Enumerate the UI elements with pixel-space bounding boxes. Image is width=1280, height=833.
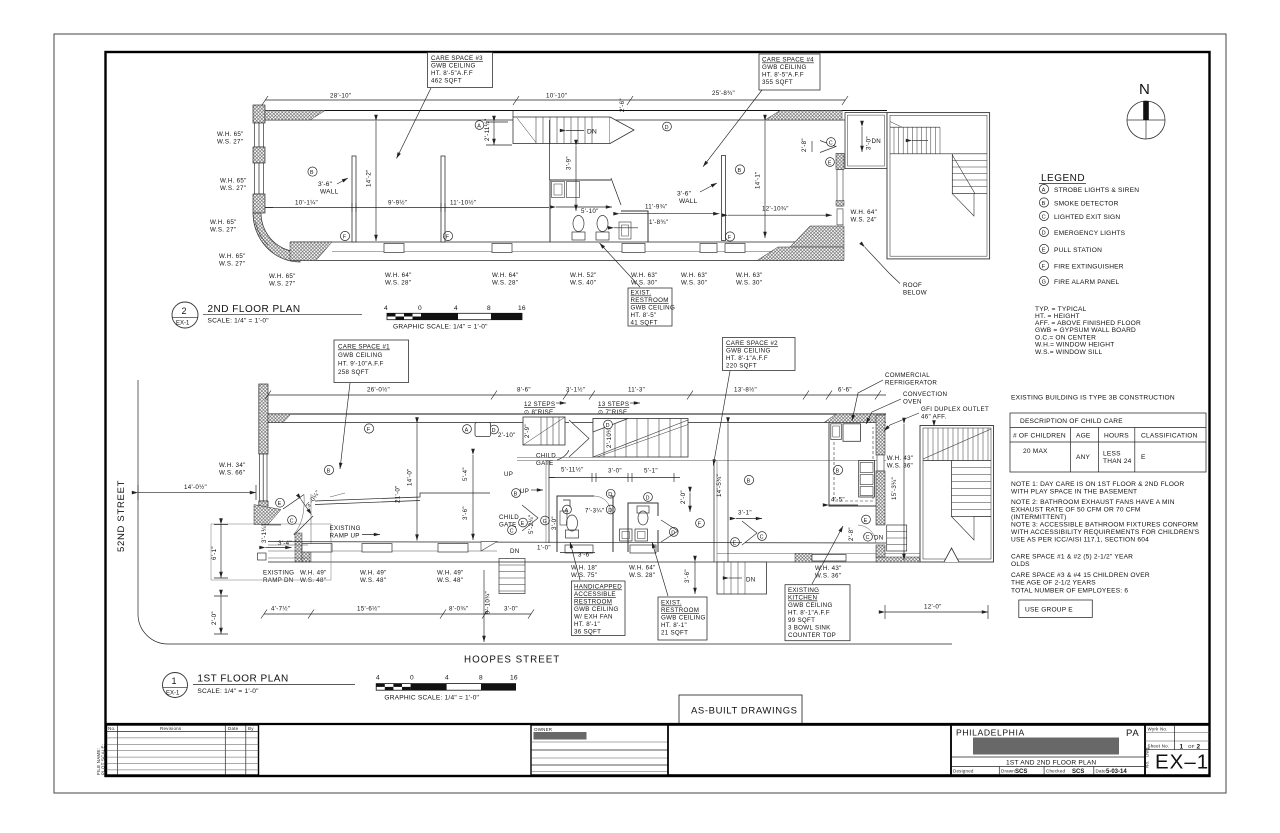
2F exist restroom label box <box>600 243 676 327</box>
svg-text:G: G <box>1042 280 1047 286</box>
svg-text:W.S. 28": W.S. 28" <box>385 280 411 287</box>
svg-text:C: C <box>829 140 833 146</box>
kitchen vertical dims <box>891 424 934 560</box>
svg-text:Dwg.: Dwg. <box>1145 746 1150 757</box>
svg-text:W.S. 27": W.S. 27" <box>210 227 236 234</box>
svg-text:2'-8": 2'-8" <box>848 527 855 541</box>
svg-text:NOTE 3: ACCESSIBLE BATHROOM FI: NOTE 3: ACCESSIBLE BATHROOM FIXTURES CON… <box>1011 522 1198 529</box>
dim 9'-10 vertical <box>484 570 492 642</box>
svg-text:THAN 24: THAN 24 <box>1103 458 1132 465</box>
owner box <box>531 725 668 775</box>
svg-text:SCS: SCS <box>1072 769 1084 775</box>
svg-text:No.: No. <box>108 726 116 731</box>
svg-text:462 SQFT: 462 SQFT <box>431 78 462 85</box>
svg-text:⊙ 7"RISE: ⊙ 7"RISE <box>598 409 627 416</box>
2F partition wall 2 <box>441 156 445 242</box>
svg-text:1'-0": 1'-0" <box>537 545 551 552</box>
dim 12'-0 <box>885 604 988 620</box>
svg-text:3'-1": 3'-1" <box>738 510 752 517</box>
2F stair width dim 2'-11 <box>484 118 512 145</box>
svg-text:7'-3¼": 7'-3¼" <box>585 508 604 515</box>
svg-text:THE AGE OF 2-1/2 YEARS: THE AGE OF 2-1/2 YEARS <box>1011 580 1096 587</box>
svg-text:CHILD: CHILD <box>536 453 556 460</box>
symbol A <box>475 121 484 130</box>
svg-text:11'-3": 11'-3" <box>628 387 645 394</box>
svg-text:AGE: AGE <box>1076 433 1091 440</box>
svg-text:8'-0¾": 8'-0¾" <box>449 606 468 613</box>
care space 1 label box <box>334 340 409 469</box>
svg-text:W.S. 27": W.S. 27" <box>220 185 246 192</box>
svg-text:AS-BUILT DRAWINGS: AS-BUILT DRAWINGS <box>691 706 798 717</box>
1F corridor walls <box>517 458 886 563</box>
svg-text:21'-0": 21'-0" <box>395 485 402 503</box>
child gate 1 <box>536 420 589 467</box>
svg-text:LESS: LESS <box>1103 451 1121 458</box>
care space 2 label box <box>713 338 795 466</box>
abbreviations <box>1035 306 1141 356</box>
svg-text:W.S. 48": W.S. 48" <box>360 577 386 584</box>
revisions table <box>107 725 259 775</box>
svg-text:LEGEND: LEGEND <box>1041 173 1085 184</box>
svg-text:Sheet No.: Sheet No. <box>1148 744 1170 749</box>
svg-text:EX-1: EX-1 <box>176 321 190 327</box>
svg-text:3'-0": 3'-0" <box>551 516 558 530</box>
svg-text:D: D <box>608 492 612 498</box>
svg-text:Designed: Designed <box>953 769 974 774</box>
svg-text:DN: DN <box>510 548 520 555</box>
svg-text:By: By <box>248 726 254 731</box>
svg-text:26'-0½": 26'-0½" <box>367 387 390 394</box>
svg-text:ACCESSIBLE: ACCESSIBLE <box>574 591 616 598</box>
svg-text:258 SQFT: 258 SQFT <box>338 369 369 376</box>
svg-text:3'-9": 3'-9" <box>566 156 573 170</box>
2F symbol F circles <box>340 231 734 241</box>
1F stair B <box>573 419 688 458</box>
svg-text:W.S. 40": W.S. 40" <box>570 280 596 287</box>
svg-text:DN: DN <box>746 577 756 584</box>
dim 3'-9 stair to restroom <box>566 146 577 211</box>
svg-text:SCALE: 1/4" = 1'-0": SCALE: 1/4" = 1'-0" <box>197 688 259 695</box>
svg-text:15'-6½": 15'-6½" <box>357 606 380 613</box>
svg-text:6'-1": 6'-1" <box>211 546 218 560</box>
svg-text:2: 2 <box>1197 743 1201 750</box>
svg-text:99 SQFT: 99 SQFT <box>788 617 815 624</box>
1F top dim row <box>265 387 886 400</box>
svg-text:OWNER: OWNER <box>534 727 553 732</box>
svg-text:3'-6": 3'-6" <box>684 569 691 583</box>
svg-text:W.H. 64": W.H. 64" <box>385 272 412 279</box>
sheet number block <box>1145 725 1210 775</box>
2F curved corner wall <box>253 213 300 262</box>
1F bottom windows <box>302 544 846 562</box>
svg-text:W.H.= WINDOW HEIGHT: W.H.= WINDOW HEIGHT <box>1035 342 1114 349</box>
2F vertical dim 14'-1 <box>755 121 766 238</box>
svg-text:EXIST.: EXIST. <box>631 290 652 297</box>
2F left wall hatch low <box>253 194 265 213</box>
2F partition wall 1 <box>352 156 356 242</box>
svg-text:W.H. 49": W.H. 49" <box>360 570 387 577</box>
2F left wall window 1 <box>255 123 264 147</box>
svg-text:UP: UP <box>520 488 529 495</box>
svg-text:WALL: WALL <box>679 198 698 205</box>
legend title <box>1039 173 1086 184</box>
mid right DN stair <box>684 562 767 594</box>
svg-text:PHILADELPHIA: PHILADELPHIA <box>956 728 1025 738</box>
svg-text:GWB CEILING: GWB CEILING <box>631 305 676 312</box>
2nd floor plan title bubble <box>172 302 362 328</box>
svg-text:B: B <box>327 468 331 474</box>
svg-text:(INTERMITTENT): (INTERMITTENT) <box>1011 514 1067 521</box>
52nd street line <box>138 380 168 644</box>
svg-text:RESTROOM: RESTROOM <box>574 599 612 606</box>
restroom dim row <box>549 467 680 483</box>
svg-text:CARE SPACE #1 & #2 (5) 2-1/2": CARE SPACE #1 & #2 (5) 2-1/2" YEAR <box>1011 554 1133 561</box>
svg-text:5'-10": 5'-10" <box>581 208 599 215</box>
svg-text:11'-10½": 11'-10½" <box>450 200 476 207</box>
roof below label <box>865 247 927 296</box>
child care table <box>1010 413 1206 472</box>
svg-text:W.S. 30": W.S. 30" <box>736 280 762 287</box>
svg-text:GWB CEILING: GWB CEILING <box>726 348 771 355</box>
svg-text:GATE: GATE <box>499 522 517 529</box>
svg-text:Checked: Checked <box>1046 769 1065 774</box>
svg-text:C: C <box>290 518 294 524</box>
svg-text:O.C.= ON CENTER: O.C.= ON CENTER <box>1035 335 1096 342</box>
svg-text:5-03-14: 5-03-14 <box>1106 769 1127 775</box>
svg-text:2'-10": 2'-10" <box>498 432 516 439</box>
notes <box>1011 481 1200 595</box>
svg-text:Revisions: Revisions <box>160 726 182 731</box>
2F roof below block <box>887 113 990 259</box>
legend items <box>1039 184 1139 286</box>
1F symbols top <box>324 423 490 475</box>
svg-text:D: D <box>606 423 610 429</box>
1F graphic scale bar <box>376 675 518 702</box>
svg-text:14'-5¾": 14'-5¾" <box>716 474 723 497</box>
1F stair A <box>498 417 565 445</box>
svg-text:USE GROUP E: USE GROUP E <box>1025 607 1073 614</box>
svg-text:1ST AND 2ND FLOOR PLAN: 1ST AND 2ND FLOOR PLAN <box>1006 760 1096 767</box>
2F toilet 2 <box>596 216 609 241</box>
care space 3 label box <box>397 53 493 159</box>
restroom sinks <box>620 529 648 541</box>
svg-text:No.: No. <box>1145 760 1150 768</box>
as-built drawings box <box>679 695 802 724</box>
door D right of restroom2 <box>661 490 690 542</box>
svg-text:W.H. 63": W.H. 63" <box>631 272 658 279</box>
svg-text:W.S. 27": W.S. 27" <box>217 139 243 146</box>
svg-text:9'-9½": 9'-9½" <box>388 200 407 207</box>
svg-text:14'-1": 14'-1" <box>755 171 762 189</box>
svg-text:4: 4 <box>445 675 449 682</box>
svg-text:HT. 8'-1"A.F.F: HT. 8'-1"A.F.F <box>788 610 830 617</box>
2F restroom <box>550 178 648 242</box>
svg-text:FIRE EXTINGUISHER: FIRE EXTINGUISHER <box>1054 264 1124 271</box>
svg-text:2ND FLOOR PLAN: 2ND FLOOR PLAN <box>208 304 301 315</box>
svg-text:HT. 8'-5"A.F.F: HT. 8'-5"A.F.F <box>762 72 804 79</box>
svg-text:W.H. 65": W.H. 65" <box>219 253 246 260</box>
svg-text:5'-2¼": 5'-2¼" <box>528 515 535 534</box>
svg-text:DN: DN <box>587 128 597 135</box>
svg-text:E: E <box>1141 454 1146 461</box>
svg-text:12'-0": 12'-0" <box>924 604 942 611</box>
2F window labels left <box>210 131 296 288</box>
svg-text:EXIST.: EXIST. <box>661 600 682 607</box>
svg-text:8: 8 <box>479 675 483 682</box>
svg-text:1'-8¾": 1'-8¾" <box>649 219 668 226</box>
svg-text:EXISTING: EXISTING <box>330 525 361 532</box>
svg-text:4: 4 <box>454 305 458 312</box>
svg-text:SMOKE DETECTOR: SMOKE DETECTOR <box>1054 201 1119 208</box>
svg-text:E: E <box>733 540 737 546</box>
svg-text:COMMERCIAL: COMMERCIAL <box>885 372 930 379</box>
svg-text:1: 1 <box>172 676 177 686</box>
svg-text:2'-6": 2'-6" <box>619 98 626 112</box>
svg-text:W.S. 30": W.S. 30" <box>681 280 707 287</box>
2F graphic scale bar <box>384 305 526 331</box>
1F ramp room edge <box>315 493 490 505</box>
svg-text:W.S. 48": W.S. 48" <box>437 577 463 584</box>
svg-text:W.H. 65": W.H. 65" <box>217 131 244 138</box>
hoopes street line <box>168 643 952 645</box>
svg-text:B: B <box>747 478 751 484</box>
svg-text:EX–1: EX–1 <box>1155 751 1209 774</box>
svg-text:RAMP UP: RAMP UP <box>330 533 360 540</box>
svg-text:E: E <box>828 160 832 166</box>
svg-text:4'-7½": 4'-7½" <box>271 606 290 613</box>
child gate 2 <box>499 489 538 535</box>
svg-text:B: B <box>310 170 314 176</box>
file name side note <box>96 744 106 775</box>
svg-text:OLDS: OLDS <box>1011 561 1030 568</box>
ramp dn slope lines <box>268 545 308 558</box>
svg-text:HT. 8'-5"A.F.F: HT. 8'-5"A.F.F <box>431 70 473 77</box>
svg-text:8'-6": 8'-6" <box>517 387 531 394</box>
svg-text:4: 4 <box>384 305 388 312</box>
care space 4 label box <box>703 54 820 167</box>
DN stair left-mid <box>499 548 525 594</box>
svg-text:# OF CHILDREN: # OF CHILDREN <box>1013 433 1066 440</box>
svg-text:SCALE: 1/4" = 1'-0": SCALE: 1/4" = 1'-0" <box>208 318 270 325</box>
svg-text:W.H. 64": W.H. 64" <box>629 565 656 572</box>
svg-text:GATE: GATE <box>536 460 554 467</box>
svg-text:W.H. 65": W.H. 65" <box>269 273 296 280</box>
svg-text:F: F <box>1042 264 1046 270</box>
use group box <box>1019 600 1093 618</box>
svg-text:W.H. 65": W.H. 65" <box>210 219 237 226</box>
2F partition wall 1 label <box>308 167 348 196</box>
svg-text:RAMP DN: RAMP DN <box>263 577 294 584</box>
svg-text:GWB CEILING: GWB CEILING <box>788 602 833 609</box>
2F roof stair left box <box>845 113 906 169</box>
svg-text:14'-2": 14'-2" <box>366 169 373 187</box>
svg-text:GRAPHIC SCALE: 1/4" = 1'-0": GRAPHIC SCALE: 1/4" = 1'-0" <box>393 324 488 331</box>
svg-text:GWB CEILING: GWB CEILING <box>338 352 383 359</box>
symbol D <box>663 122 672 131</box>
svg-text:C: C <box>1042 215 1046 221</box>
middle empty cell border <box>668 725 951 775</box>
handicapped toilet <box>560 511 579 538</box>
svg-text:Date: Date <box>228 726 239 731</box>
svg-text:DN: DN <box>874 535 884 542</box>
svg-text:PA: PA <box>1126 728 1140 739</box>
svg-text:4'-5": 4'-5" <box>831 497 845 504</box>
sidewalk outline <box>211 524 331 580</box>
svg-text:PLOT SCALE:: PLOT SCALE: <box>101 744 106 775</box>
svg-text:8: 8 <box>487 305 491 312</box>
1F left dims <box>211 525 228 635</box>
svg-text:16: 16 <box>518 305 526 312</box>
svg-text:W.S. 36": W.S. 36" <box>887 463 913 470</box>
svg-text:WALL: WALL <box>320 189 339 196</box>
svg-text:355 SQFT: 355 SQFT <box>762 79 793 86</box>
2F bottom wall <box>290 226 844 261</box>
2F partition wall 3 label <box>677 165 745 205</box>
corridor dim 14'-5 <box>716 424 754 593</box>
restroom symbols <box>537 489 652 558</box>
svg-text:W.S. 75": W.S. 75" <box>571 572 597 579</box>
2F mid dim row <box>265 200 549 213</box>
svg-text:OVEN: OVEN <box>903 399 922 406</box>
svg-text:46" AFF.: 46" AFF. <box>921 414 947 421</box>
svg-text:D: D <box>665 125 669 131</box>
svg-text:PULL STATION: PULL STATION <box>1054 247 1102 254</box>
svg-text:FIRE ALARM PANEL: FIRE ALARM PANEL <box>1054 279 1120 286</box>
svg-text:15'-3¼": 15'-3¼" <box>891 477 898 500</box>
svg-text:B: B <box>514 491 518 497</box>
svg-text:0: 0 <box>418 305 422 312</box>
svg-text:36 SQFT: 36 SQFT <box>574 629 601 636</box>
svg-text:HT. 8'-1"A.F.F: HT. 8'-1"A.F.F <box>726 355 768 362</box>
svg-text:3'-1½": 3'-1½" <box>566 387 585 394</box>
svg-text:A: A <box>565 508 569 514</box>
svg-text:4: 4 <box>376 675 380 682</box>
1F corner door E C <box>254 489 322 562</box>
svg-text:41 SQFT: 41 SQFT <box>631 320 658 327</box>
svg-text:HOOPES STREET: HOOPES STREET <box>464 655 560 666</box>
svg-text:5'-11½": 5'-11½" <box>561 467 584 474</box>
UP arrows <box>504 471 543 495</box>
svg-text:W.H. 64": W.H. 64" <box>851 209 878 216</box>
svg-text:5'-4": 5'-4" <box>462 467 469 481</box>
svg-text:GWB CEILING: GWB CEILING <box>431 63 476 70</box>
svg-text:1: 1 <box>1180 743 1184 750</box>
svg-text:TOTAL NUMBER OF EMPLOYEES: 6: TOTAL NUMBER OF EMPLOYEES: 6 <box>1011 588 1128 595</box>
svg-text:D: D <box>1042 231 1046 237</box>
svg-text:EX-1: EX-1 <box>166 691 180 697</box>
svg-text:EXISTING: EXISTING <box>263 570 294 577</box>
extra D symbols 1F <box>490 424 675 434</box>
svg-text:3'-4": 3'-4" <box>278 540 292 547</box>
1F left wall hatch low <box>259 501 268 524</box>
steps labels <box>524 401 640 416</box>
svg-text:13 STEPS: 13 STEPS <box>598 401 629 408</box>
1F interior vertical dims <box>395 424 550 541</box>
svg-text:D: D <box>608 508 612 514</box>
svg-text:W.S. 28": W.S. 28" <box>629 572 655 579</box>
svg-text:HOURS: HOURS <box>1104 433 1129 440</box>
svg-text:CARE SPACE #4: CARE SPACE #4 <box>762 57 814 64</box>
svg-text:25'-8¾": 25'-8¾" <box>712 90 735 97</box>
svg-text:W.S. 28": W.S. 28" <box>492 280 518 287</box>
svg-text:12 STEPS: 12 STEPS <box>524 401 555 408</box>
svg-text:RESTROOM: RESTROOM <box>661 607 699 614</box>
svg-text:USE AS PER ICC/AISI 117.1, SEC: USE AS PER ICC/AISI 117.1, SECTION 604 <box>1011 537 1149 544</box>
svg-text:N: N <box>1139 81 1150 98</box>
svg-text:CARE SPACE #3 & #4 15 CHILDREN: CARE SPACE #3 & #4 15 CHILDREN OVER <box>1011 572 1150 579</box>
svg-text:W.H. 49": W.H. 49" <box>300 570 327 577</box>
svg-text:UP: UP <box>504 471 513 478</box>
2F right wall <box>836 153 844 225</box>
svg-text:3'-6": 3'-6" <box>462 506 469 520</box>
svg-text:28'-10": 28'-10" <box>330 93 351 100</box>
svg-text:EXISTING: EXISTING <box>788 587 819 594</box>
svg-text:CARE SPACE #1: CARE SPACE #1 <box>338 344 390 351</box>
svg-text:B: B <box>738 168 742 174</box>
svg-text:BELOW: BELOW <box>903 290 927 297</box>
2F dim 1'-8 <box>614 219 668 228</box>
svg-text:GRAPHIC SCALE: 1/4" = 1'-0": GRAPHIC SCALE: 1/4" = 1'-0" <box>384 695 479 702</box>
svg-text:CARE SPACE #3: CARE SPACE #3 <box>431 55 483 62</box>
svg-text:W.H. 49": W.H. 49" <box>437 570 464 577</box>
architect block <box>951 725 1145 775</box>
dim 14'-0 left <box>138 484 256 500</box>
existing kitchen label box <box>785 526 850 641</box>
svg-text:2'-0": 2'-0" <box>680 490 687 504</box>
svg-text:W.H. 43": W.H. 43" <box>887 455 914 462</box>
drawing frame <box>106 52 1210 776</box>
kitchen door DN <box>848 515 907 551</box>
svg-text:B: B <box>1042 201 1046 207</box>
existing ramp dn label <box>263 570 294 585</box>
svg-text:3'-0": 3'-0" <box>504 606 518 613</box>
svg-text:W.H. 52": W.H. 52" <box>570 272 597 279</box>
svg-text:D: D <box>646 495 650 501</box>
svg-text:3'-1¼": 3'-1¼" <box>261 524 268 543</box>
svg-text:C: C <box>866 535 870 541</box>
svg-text:3'-6": 3'-6" <box>677 191 692 198</box>
svg-text:B: B <box>836 468 840 474</box>
svg-text:ANY: ANY <box>1076 454 1091 461</box>
svg-text:GWB CEILING: GWB CEILING <box>574 606 619 613</box>
svg-text:OF: OF <box>1188 744 1195 749</box>
svg-text:16: 16 <box>510 675 518 682</box>
svg-text:220 SQFT: 220 SQFT <box>726 363 757 370</box>
2F right door exit <box>801 138 836 167</box>
appliance labels <box>852 372 989 431</box>
svg-text:13'-8½": 13'-8½" <box>734 387 757 394</box>
2F top wall <box>265 111 887 121</box>
svg-text:W.H. 64": W.H. 64" <box>492 272 519 279</box>
svg-text:HT. 8'-1": HT. 8'-1" <box>574 621 600 628</box>
svg-text:3'-0": 3'-0" <box>608 468 622 475</box>
svg-text:W.S. 48": W.S. 48" <box>300 577 326 584</box>
svg-text:A: A <box>477 123 481 129</box>
svg-text:Drawn: Drawn <box>1001 769 1015 774</box>
svg-text:NOTE 2: BATHROOM EXHAUST FANS: NOTE 2: BATHROOM EXHAUST FANS HAVE A MIN <box>1011 499 1175 506</box>
svg-text:3'-6": 3'-6" <box>318 181 333 188</box>
svg-text:HT. = HEIGHT: HT. = HEIGHT <box>1035 313 1080 320</box>
svg-text:CHILD: CHILD <box>499 514 519 521</box>
svg-text:W.S. 27": W.S. 27" <box>269 281 295 288</box>
svg-text:2'-11½": 2'-11½" <box>484 118 491 141</box>
svg-text:HT. 8'-5": HT. 8'-5" <box>631 312 657 319</box>
svg-text:COUNTER TOP: COUNTER TOP <box>788 632 836 639</box>
svg-text:DESCRIPTION OF CHILD CARE: DESCRIPTION OF CHILD CARE <box>1020 418 1123 425</box>
1st floor plan title bubble <box>163 673 356 698</box>
svg-text:14'-0½": 14'-0½" <box>184 484 207 491</box>
svg-text:W.S. 36": W.S. 36" <box>815 573 841 580</box>
